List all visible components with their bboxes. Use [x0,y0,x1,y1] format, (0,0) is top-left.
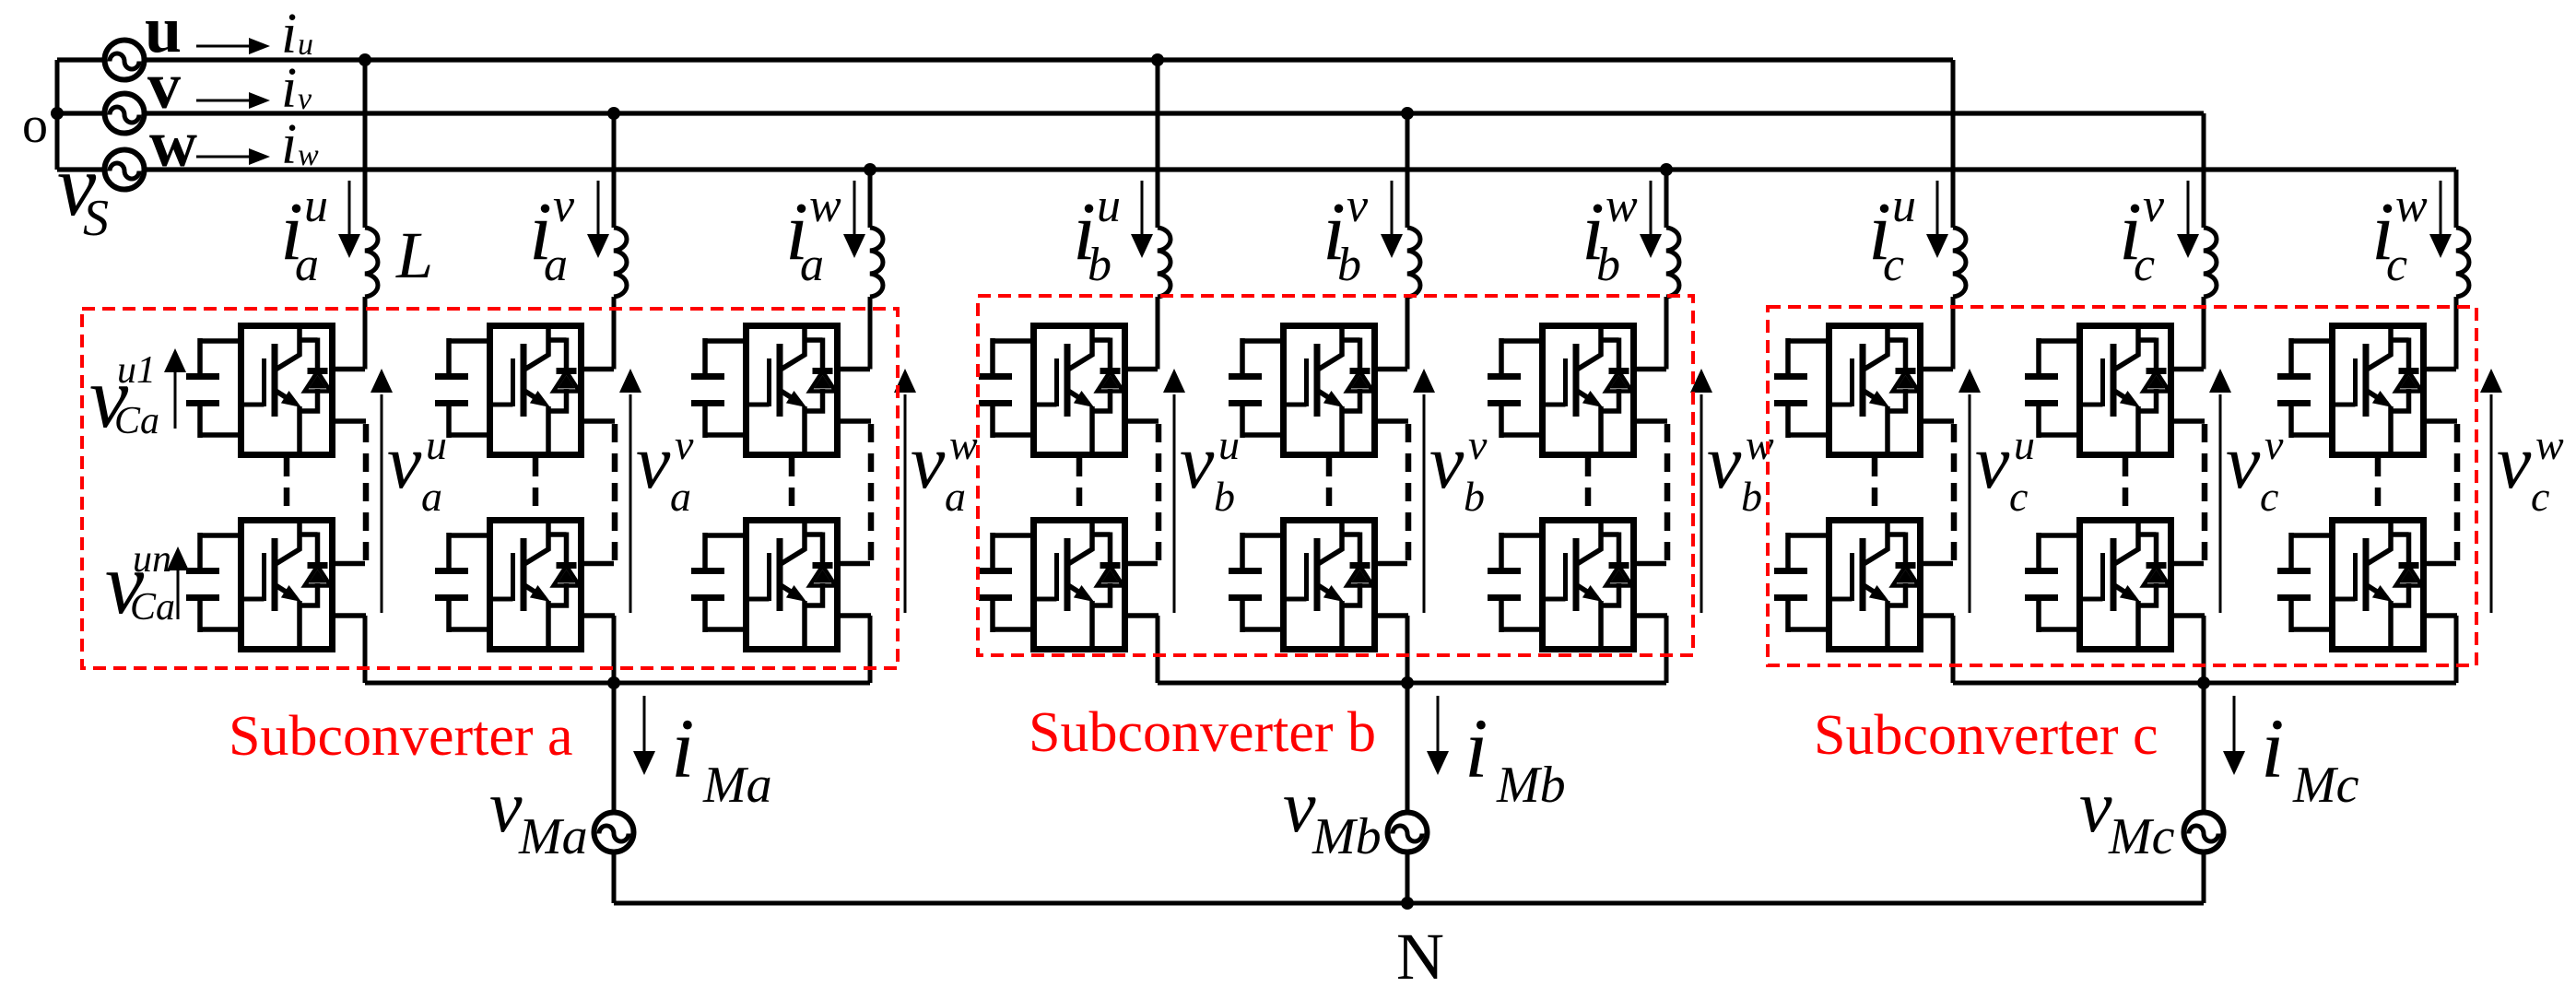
svg-text:w: w [298,138,319,172]
current arrow i_u [196,45,251,48]
voltage arrow v_c^w [2490,394,2493,613]
svg-text:a: a [670,473,691,520]
svg-text:u: u [298,28,313,62]
junction dot output bus c [2197,676,2210,689]
cell a-v submodule 1 [435,325,615,455]
svg-text:v: v [1429,419,1464,505]
inductor L leg b-u [1158,228,1170,297]
svg-text:Mb: Mb [1496,757,1566,814]
svg-text:a: a [800,239,824,291]
junction dot leg b-v on bus [1401,107,1414,120]
cell b-w submodule 1 [1488,325,1667,455]
cell c-v submodule 1 [2025,325,2205,455]
wire: inductor to cell 1 of leg a-v [612,297,617,370]
svg-text:a: a [945,473,966,520]
svg-text:u: u [304,180,328,232]
cell c-u submodule 1 [1774,325,1954,455]
cell c-w submodule n [2277,520,2457,650]
dashed right link of leg a-w [868,424,875,560]
dashed right link of leg a-u [363,424,370,560]
voltage arrow v_Ca^un [177,567,180,619]
wire: inductor to cell 1 of leg c-w [2454,297,2459,370]
svg-text:i: i [281,3,297,65]
current arrow i_a^w [853,181,856,234]
wire: cell n of leg c-v down to output bus [2202,616,2206,683]
svg-text:u1: u1 [117,349,156,392]
svg-text:u: u [1892,180,1916,232]
inductor L leg b-w [1666,228,1679,297]
svg-text:v: v [2226,419,2261,505]
wire: cell n of leg a-v down to output bus [612,616,617,683]
ac source v_Mc [2184,813,2224,852]
series dashed link of leg b-u [1076,458,1083,516]
wire: leg b-w from bus to inductor [1664,170,1669,228]
svg-text:Mc: Mc [2292,757,2359,814]
svg-text:c: c [1883,239,1904,291]
junction dot leg a-v on bus [607,107,620,120]
wire: phase w bus [57,167,2456,171]
svg-text:L: L [395,218,433,292]
wire: inductor to cell 1 of leg b-u [1156,297,1160,370]
dashed right link of leg c-u [1951,424,1958,560]
svg-text:v: v [2264,421,2284,468]
dashed right link of leg a-v [612,424,618,560]
voltage arrow v_Ca^u1 [174,369,177,429]
wire: cell n of leg a-u down to output bus [363,616,368,683]
voltage arrow v_a^v [629,394,632,613]
node o junction dot [51,107,64,120]
svg-text:Ma: Ma [518,808,588,865]
svg-text:v: v [2497,419,2532,505]
current arrow i_Ma [643,696,646,751]
ac source v_Mb [1388,813,1428,852]
svg-text:b: b [1596,239,1620,291]
wire: output bus b down to machine source [1406,683,1410,903]
cell a-u submodule n [186,520,366,650]
svg-text:v: v [2079,767,2112,848]
wire: output bus of subconverter c [1953,681,2456,686]
junction dot output bus a [607,676,620,689]
series dashed link of leg a-w [789,458,795,516]
current arrow i_a^u [348,181,351,234]
wire: leg c-u from bus to inductor [1951,60,1956,228]
svg-text:c: c [2531,473,2549,520]
current arrow i_b^v [1391,181,1394,234]
svg-text:w: w [2535,421,2564,468]
wire: cell n of leg b-w down to output bus [1664,616,1669,683]
svg-text:v: v [675,421,694,468]
svg-text:i: i [2261,701,2285,795]
ac source v_Ma [594,813,634,852]
wire: cell n of leg c-u down to output bus [1951,616,1956,683]
svg-text:N: N [1396,920,1444,987]
wire: cell n of leg b-u down to output bus [1156,616,1160,683]
svg-text:b: b [1337,239,1361,291]
red dashed boundary of subconverter c [1768,307,2476,665]
cell a-w submodule n [691,520,871,650]
svg-text:w: w [2395,180,2428,232]
wire: phase u bus [57,57,1953,62]
junction dot leg a-u on bus [359,53,371,66]
wire: inductor to cell 1 of leg b-v [1406,297,1410,370]
ac source v_u [105,41,145,80]
svg-text:Mb: Mb [1312,808,1382,865]
svg-text:w: w [809,180,841,232]
current arrow i_v [196,100,251,102]
svg-text:u: u [1097,180,1121,232]
svg-text:Ca: Ca [130,586,175,629]
junction dot output bus b [1401,676,1414,689]
svg-text:v: v [1347,180,1369,232]
cell b-u submodule 1 [979,325,1159,455]
wire: leg c-v from bus to inductor [2202,113,2206,228]
cell a-v submodule n [435,520,615,650]
svg-text:v: v [1180,419,1215,505]
inductor L leg a-v [614,228,627,297]
wire: leg a-w from bus to inductor [868,170,873,228]
svg-text:b: b [1464,473,1485,520]
svg-text:Subconverter b: Subconverter b [1029,701,1376,764]
inductor L leg c-w [2456,228,2469,297]
series dashed link of leg c-u [1872,458,1878,516]
svg-text:v: v [489,767,523,848]
junction dot leg a-w on bus [864,163,876,176]
voltage arrow v_b^w [1700,394,1703,613]
wire: left rail from phase u to phase w [55,60,60,170]
wire: output bus of subconverter a [365,681,870,686]
current arrow i_b^u [1141,181,1144,234]
svg-text:b: b [1214,473,1235,520]
wire: inductor to cell 1 of leg c-u [1951,297,1956,370]
wire: inductor to cell 1 of leg a-u [363,297,368,370]
svg-text:Ma: Ma [702,757,772,814]
svg-text:un: un [133,538,171,581]
cell b-v submodule n [1229,520,1408,650]
dashed right link of leg b-w [1664,424,1671,560]
current arrow i_Mb [1437,696,1440,751]
junction dot leg b-w on bus [1660,163,1673,176]
current arrow i_w [196,156,251,159]
svg-text:v: v [636,419,671,505]
wire: leg a-v from bus to inductor [612,113,617,228]
wire: inductor to cell 1 of leg a-w [868,297,873,370]
svg-text:a: a [544,239,568,291]
svg-text:c: c [2009,473,2028,520]
svg-text:v: v [387,419,422,505]
svg-text:v: v [911,419,946,505]
series dashed link of leg b-w [1585,458,1592,516]
cell c-u submodule n [1774,520,1954,650]
red dashed boundary of subconverter b [978,296,1693,655]
svg-text:c: c [2386,239,2407,291]
svg-text:b: b [1741,473,1762,520]
inductor L leg b-v [1407,228,1420,297]
wire: leg a-u from bus to inductor [363,60,368,228]
svg-text:i: i [281,57,297,120]
cell a-u submodule 1 [186,325,366,455]
wire: neutral line N [614,901,2204,906]
svg-text:w: w [949,421,978,468]
ac source v_v [105,94,145,134]
svg-text:u: u [1218,421,1240,468]
wire: cell n of leg c-w down to output bus [2454,616,2459,683]
wire: output bus of subconverter b [1158,681,1666,686]
svg-text:a: a [421,473,442,520]
current arrow i_c^w [2440,181,2442,234]
wire: phase v bus [57,111,2204,115]
svg-text:u: u [2014,421,2035,468]
voltage arrow v_b^v [1423,394,1426,613]
wire: output bus c down to machine source [2202,683,2206,903]
dashed right link of leg c-v [2202,424,2208,560]
dashed right link of leg c-w [2454,424,2461,560]
current arrow i_Mc [2233,696,2236,751]
svg-text:b: b [1088,239,1112,291]
svg-text:w: w [1746,421,1774,468]
series dashed link of leg c-w [2375,458,2382,516]
wire: output bus a down to machine source [612,683,617,903]
dashed right link of leg b-v [1406,424,1412,560]
svg-text:Mc: Mc [2108,808,2175,865]
svg-text:Subconverter a: Subconverter a [229,705,573,768]
svg-text:v: v [1283,767,1316,848]
svg-text:S: S [83,190,109,247]
current arrow i_c^v [2187,181,2190,234]
voltage arrow v_c^u [1969,394,1971,613]
svg-text:v: v [298,82,312,116]
cell c-w submodule 1 [2277,325,2457,455]
inductor L leg a-w [870,228,883,297]
series dashed link of leg a-u [284,458,290,516]
svg-text:o: o [22,97,48,154]
series dashed link of leg b-v [1326,458,1333,516]
node N junction dot [1401,897,1414,910]
svg-text:i: i [281,113,297,176]
cell b-v submodule 1 [1229,325,1408,455]
cell c-v submodule n [2025,520,2205,650]
current arrow i_b^w [1650,181,1653,234]
wire: inductor to cell 1 of leg b-w [1664,297,1669,370]
current arrow i_a^v [597,181,600,234]
svg-text:v: v [1468,421,1488,468]
ac source v_w [105,150,145,190]
voltage arrow v_a^w [904,394,907,613]
wire: cell n of leg a-w down to output bus [868,616,873,683]
svg-text:c: c [2260,473,2278,520]
voltage arrow v_b^u [1173,394,1176,613]
wire: leg b-v from bus to inductor [1406,113,1410,228]
series dashed link of leg c-v [2123,458,2129,516]
svg-text:c: c [2134,239,2155,291]
junction dot leg b-u on bus [1151,53,1164,66]
svg-text:w: w [149,107,197,181]
series dashed link of leg a-v [533,458,539,516]
svg-text:v: v [1975,419,2010,505]
wire: leg b-u from bus to inductor [1156,60,1160,228]
svg-text:Ca: Ca [114,400,159,442]
svg-text:u: u [426,421,447,468]
inductor L leg a-u [365,228,378,297]
current arrow i_c^u [1936,181,1939,234]
inductor L leg c-u [1953,228,1966,297]
wire: inductor to cell 1 of leg c-v [2202,297,2206,370]
cell b-w submodule n [1488,520,1667,650]
dashed right link of leg b-u [1156,424,1162,560]
red dashed boundary of subconverter a [82,309,898,668]
cell a-w submodule 1 [691,325,871,455]
svg-text:Subconverter c: Subconverter c [1814,704,2158,767]
cell b-u submodule n [979,520,1159,650]
inductor L leg c-v [2204,228,2217,297]
wire: cell n of leg b-v down to output bus [1406,616,1410,683]
svg-text:i: i [1464,701,1488,795]
svg-text:i: i [671,701,695,795]
voltage arrow v_c^v [2219,394,2222,613]
svg-text:a: a [295,239,319,291]
svg-text:v: v [1707,419,1742,505]
svg-text:v: v [2143,180,2165,232]
svg-text:w: w [1606,180,1638,232]
voltage arrow v_a^u [381,394,383,613]
svg-text:v: v [553,180,575,232]
wire: leg c-w from bus to inductor [2454,170,2459,228]
